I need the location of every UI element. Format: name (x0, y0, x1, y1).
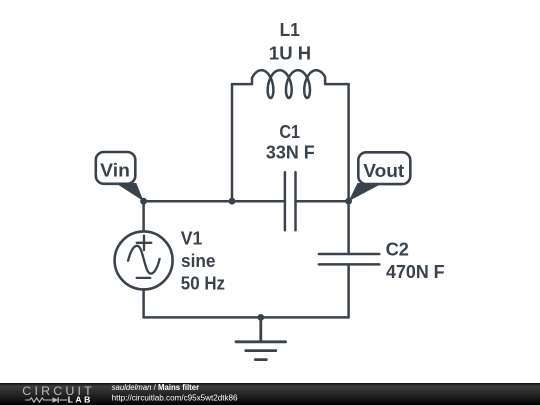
ground (236, 317, 286, 359)
svg-text:http://circuitlab.com/c95x5wt2: http://circuitlab.com/c95x5wt2dtk86 (112, 393, 238, 402)
node ground junction (257, 314, 264, 321)
wire C2 to bottom rail (347, 264, 350, 317)
wire middle left (Vin node to C1) (144, 200, 285, 203)
net label Vout (349, 152, 411, 201)
footer bar (0, 383, 540, 405)
svg-text:L1: L1 (280, 20, 300, 40)
node Vout junction (345, 198, 352, 205)
svg-text:C1: C1 (279, 122, 300, 142)
wire Vin node down to V1 (142, 201, 145, 231)
svg-text:Vin: Vin (100, 161, 130, 181)
svg-text:sine: sine (181, 251, 216, 271)
wire top-right vertical (L1 to node Vout) (347, 84, 350, 201)
svg-text:C2: C2 (386, 240, 409, 260)
svg-text:470N F: 470N F (386, 262, 445, 282)
voltage source V1 (115, 231, 173, 289)
node L1/C1 junction (229, 198, 236, 205)
capacitor C1 (285, 172, 296, 230)
svg-text:Vout: Vout (363, 161, 404, 181)
node Vin junction (140, 198, 147, 205)
svg-text:33N F: 33N F (266, 143, 315, 163)
CircuitLab logo resistor-diode symbol (25, 397, 67, 402)
wire V1 to bottom rail (142, 289, 145, 317)
net label Vin (96, 152, 144, 201)
capacitor C2 (319, 254, 379, 264)
svg-text:LAB: LAB (68, 395, 93, 405)
svg-text:V1: V1 (181, 229, 203, 249)
wire bottom rail (144, 316, 349, 319)
svg-text:sauldelman / Mains filter: sauldelman / Mains filter (112, 383, 200, 392)
wire Vout node down to C2 (347, 201, 350, 254)
wire middle right (C1 to Vout node) (296, 200, 349, 203)
svg-text:1U H: 1U H (269, 44, 311, 64)
inductor L1 (232, 70, 349, 98)
wire top-left vertical (node Vin branch to L1) (231, 84, 234, 201)
svg-text:50 Hz: 50 Hz (181, 273, 225, 293)
